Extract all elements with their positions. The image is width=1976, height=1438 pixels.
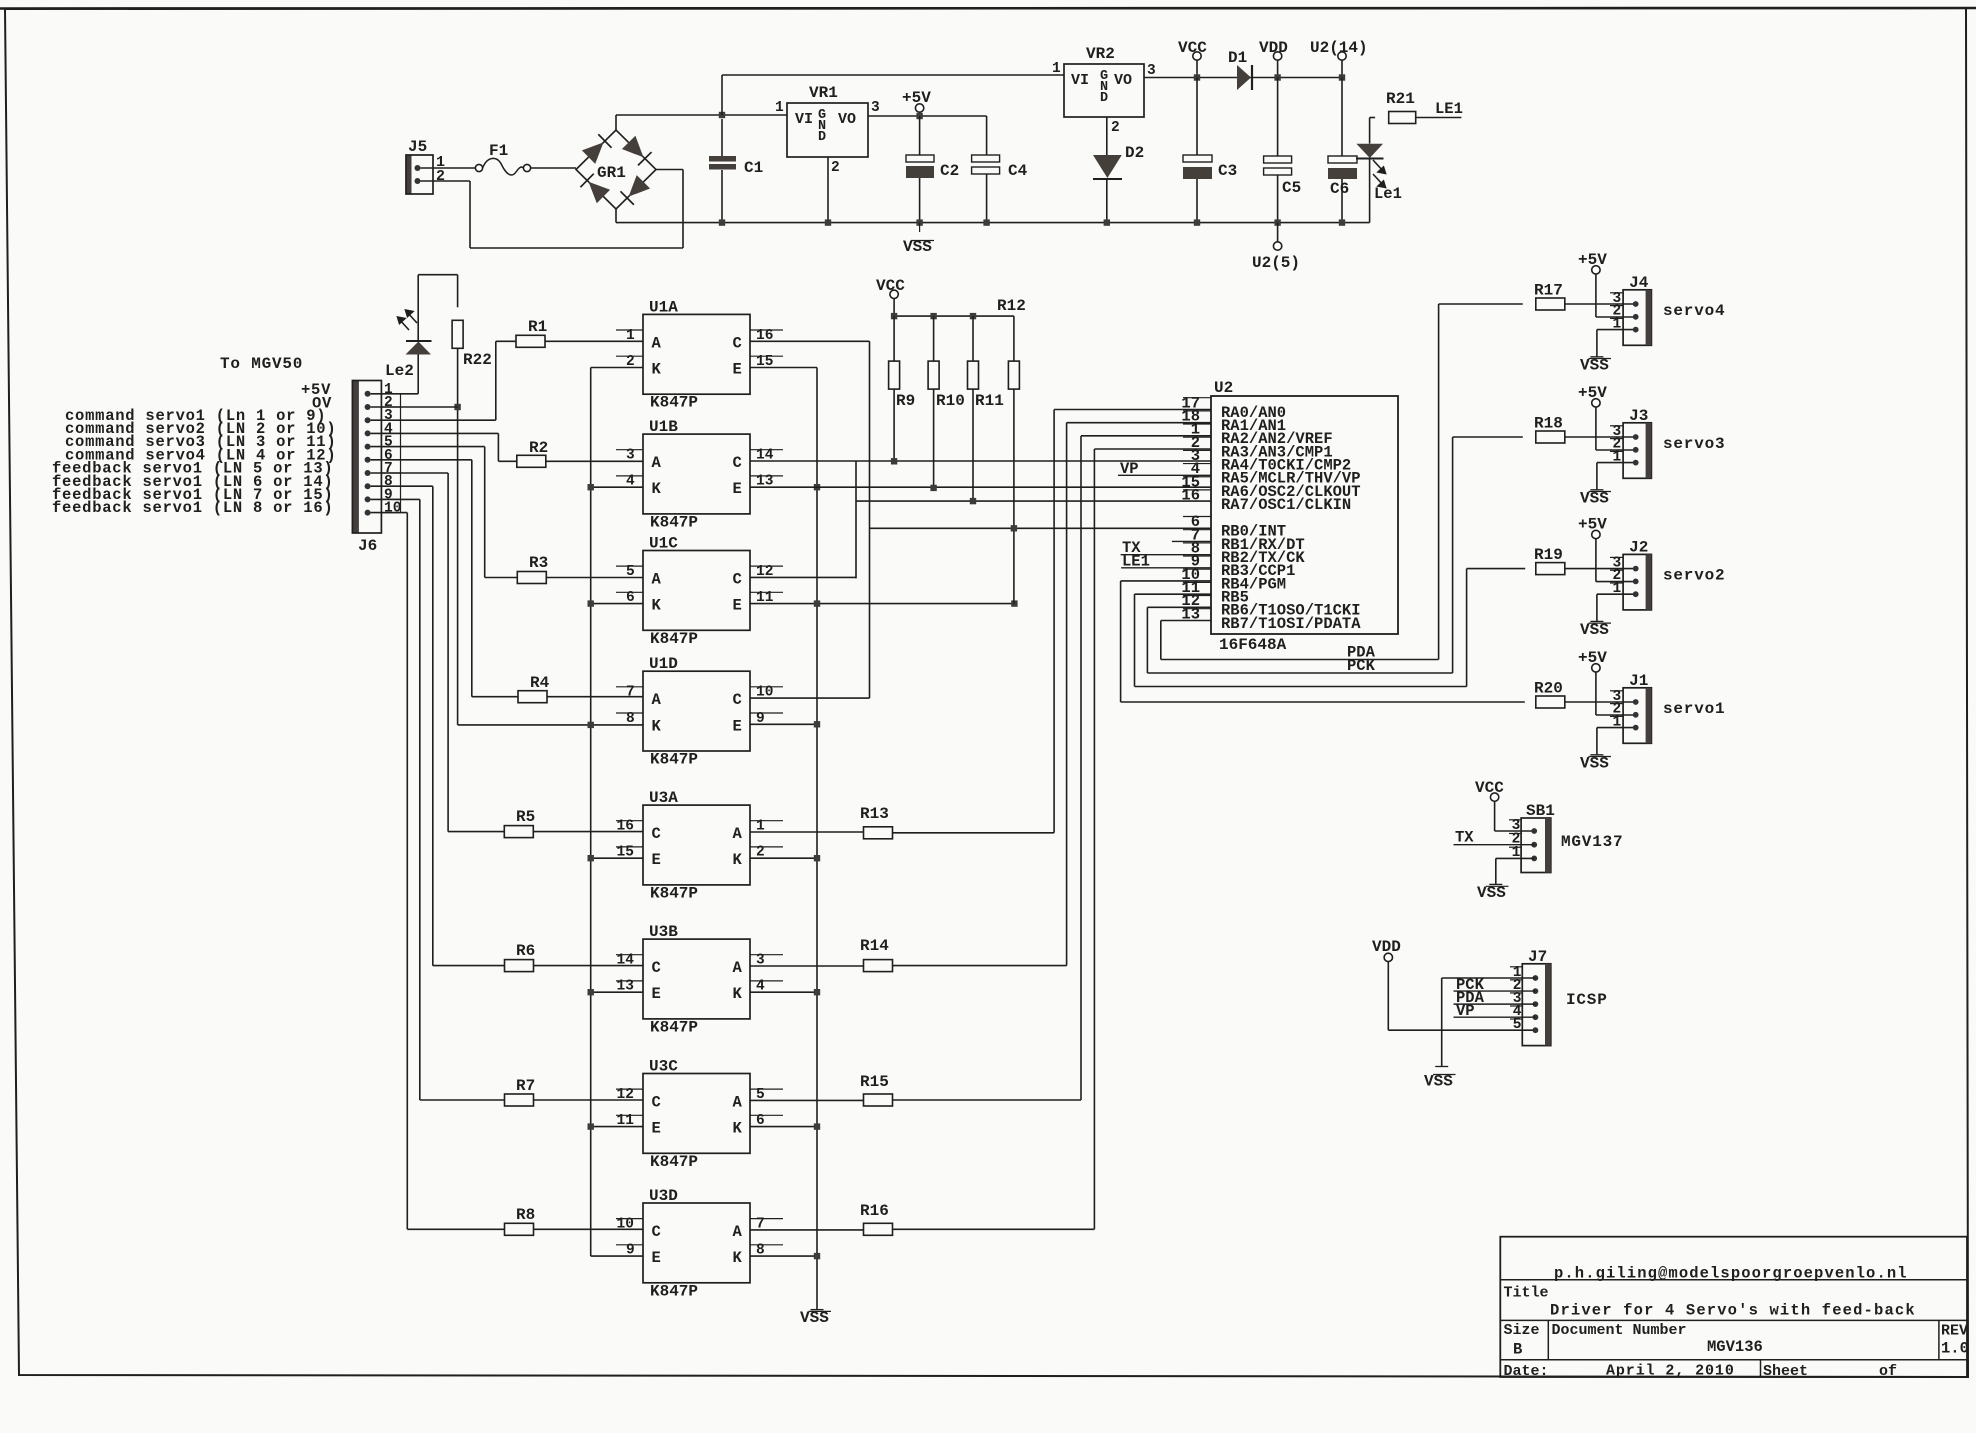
svg-text:3: 3 — [871, 100, 880, 116]
wire J6.2 0V — [371, 406, 458, 408]
junction R10 rail — [930, 313, 936, 319]
VSS symbol bottom — [811, 1309, 824, 1311]
svg-text:LE1: LE1 — [1122, 552, 1150, 570]
svg-text:A: A — [652, 454, 662, 472]
svg-text:U3C: U3C — [649, 1058, 678, 1076]
svg-text:C1: C1 — [744, 159, 763, 177]
svg-text:K: K — [733, 1120, 743, 1138]
svg-text:E: E — [652, 851, 661, 869]
U3A.K junction — [750, 857, 817, 859]
resistor R2 — [517, 455, 546, 467]
junction U1C.K — [591, 603, 643, 605]
svg-text:U3B: U3B — [649, 923, 678, 941]
svg-text:J5: J5 — [408, 138, 427, 156]
svg-text:D2: D2 — [1125, 144, 1144, 162]
junction R11 rail — [970, 313, 976, 319]
resistor R11 — [972, 316, 974, 361]
wire R20 to pin3 — [1565, 701, 1636, 703]
resistor R7 — [505, 1094, 534, 1106]
resistor R14 — [864, 960, 893, 972]
wire R18 to pin3 — [1565, 436, 1636, 438]
svg-text:VP: VP — [1120, 460, 1139, 478]
wire J5.1 to F1 — [421, 167, 476, 169]
VSS bus right — [816, 368, 818, 1310]
U3D.K junction — [750, 1255, 817, 1257]
pin1 wire to VSS J2 — [1597, 593, 1636, 595]
junction U1D.K 0V — [458, 724, 643, 726]
svg-text:R8: R8 — [516, 1206, 535, 1224]
svg-text:R19: R19 — [1534, 546, 1563, 564]
svg-text:A: A — [652, 570, 662, 588]
svg-text:K847P: K847P — [650, 394, 698, 412]
junction C1 bottom — [719, 219, 725, 225]
wire J6.9 to R7 — [371, 498, 420, 500]
svg-text:U2(5): U2(5) — [1252, 254, 1300, 272]
svg-text:Sheet: Sheet — [1763, 1363, 1808, 1380]
LED Le1 — [1369, 118, 1371, 144]
svg-text:feedback servo1 (LN 8 or 16): feedback servo1 (LN 8 or 16) — [52, 499, 333, 517]
VR2 pin2 wire to D2 — [1106, 117, 1108, 155]
resistor R9 — [893, 316, 895, 361]
svg-text:E: E — [652, 1120, 661, 1138]
svg-text:VR2: VR2 — [1086, 45, 1115, 63]
resistor R19 — [1536, 563, 1565, 575]
svg-text:VSS: VSS — [1424, 1073, 1453, 1091]
wire VR2.3 output rail — [1144, 77, 1342, 79]
svg-text:R1: R1 — [528, 318, 547, 336]
svg-text:K: K — [733, 985, 743, 1003]
svg-text:C5: C5 — [1282, 179, 1301, 197]
diode D1 — [1237, 65, 1251, 90]
svg-text:K: K — [733, 1249, 743, 1267]
fuse F1 — [475, 164, 482, 171]
svg-text:RB7/T1OSI/PDATA: RB7/T1OSI/PDATA — [1221, 615, 1361, 633]
net label PDA J7 pin3 — [1454, 1003, 1536, 1005]
svg-text:R6: R6 — [516, 942, 535, 960]
svg-text:MGV137: MGV137 — [1561, 833, 1623, 851]
wire R22 to 0V junction — [457, 348, 459, 725]
svg-text:10: 10 — [384, 501, 401, 517]
resistor R22 — [452, 320, 463, 348]
wire up to VR2 rail — [721, 75, 723, 115]
svg-text:RA7/OSC1/CLKIN: RA7/OSC1/CLKIN — [1221, 496, 1351, 514]
svg-text:1: 1 — [1052, 61, 1061, 77]
+5V wire to pin2 J1 — [1595, 672, 1597, 715]
optocoupler U3D — [643, 1203, 750, 1283]
svg-text:p.h.giling@modelspoorgroepvenl: p.h.giling@modelspoorgroepvenlo.nl — [1554, 1265, 1908, 1283]
wire J6.3 to R1 — [371, 419, 496, 421]
svg-text:+5V: +5V — [1578, 251, 1607, 269]
wire VDD to J7 pin5 — [1387, 962, 1389, 1031]
+5V symbol J4 — [1592, 266, 1600, 274]
svg-text:C3: C3 — [1218, 162, 1237, 180]
svg-text:Date:: Date: — [1504, 1363, 1549, 1380]
resistor R3 — [517, 572, 546, 584]
wire to U2(5) symbol — [1277, 223, 1279, 242]
wire U2 pin10 to R20 servo1 — [1121, 580, 1211, 582]
voltage regulator VR2 — [1064, 64, 1144, 117]
RA7 net line from branch to U2 pin16 — [856, 500, 1211, 502]
svg-text:VDD: VDD — [1259, 39, 1288, 57]
junction VCC rail — [1194, 74, 1200, 80]
+5V wire to pin2 J4 — [1595, 274, 1597, 317]
svg-text:R17: R17 — [1534, 282, 1563, 300]
+5V symbol J1 — [1592, 664, 1600, 672]
svg-text:K847P: K847P — [650, 513, 698, 531]
svg-text:REV: REV — [1941, 1323, 1968, 1340]
RB0 net line to U2 pin6 — [870, 527, 1212, 529]
svg-text:1.0: 1.0 — [1941, 1340, 1969, 1358]
J7 pin1 wire to VSS — [1442, 977, 1536, 979]
svg-text:D: D — [818, 130, 826, 145]
+5V symbol J3 — [1592, 399, 1600, 407]
svg-text:K: K — [652, 361, 662, 379]
bridge rectifier GR1 — [576, 130, 656, 209]
wire VR1.3 to +5V and C2 C4 — [868, 115, 987, 117]
svg-text:C: C — [652, 1093, 661, 1111]
U1D.E wire and junction — [750, 723, 817, 725]
svg-text:C: C — [733, 454, 742, 472]
svg-text:J3: J3 — [1629, 407, 1648, 425]
wire J6.1 to Le2 — [371, 393, 419, 395]
svg-text:C6: C6 — [1330, 180, 1349, 198]
svg-text:B: B — [1513, 1341, 1522, 1359]
wire F1 to GR1 — [531, 167, 576, 169]
U2 pin7 stub — [1172, 540, 1211, 542]
svg-text:E: E — [652, 1249, 661, 1267]
resistor R20 — [1536, 696, 1565, 708]
VDD symbol power — [1273, 52, 1281, 60]
svg-text:C2: C2 — [940, 162, 959, 180]
wire U2 pin11 to R19 feed — [1135, 593, 1212, 595]
resistor R1 — [516, 335, 545, 347]
svg-text:servo1: servo1 — [1663, 700, 1725, 718]
voltage regulator VR1 — [787, 103, 868, 157]
resistor R12 — [1013, 316, 1015, 361]
VCC symbol pullups — [890, 290, 898, 298]
connector J3 — [1623, 423, 1651, 479]
svg-text:servo2: servo2 — [1663, 567, 1725, 585]
LED Le2 — [406, 342, 432, 355]
U3C.K junction — [750, 1126, 817, 1128]
resistor R4 — [518, 691, 547, 703]
svg-text:VI: VI — [795, 111, 813, 128]
svg-text:D1: D1 — [1228, 49, 1247, 67]
svg-text:U3D: U3D — [649, 1187, 678, 1205]
resistor R17 — [1536, 298, 1565, 310]
optocoupler U1D — [643, 671, 750, 751]
svg-text:K847P: K847P — [650, 884, 698, 902]
svg-text:K847P: K847P — [650, 1153, 698, 1171]
capacitor C5 — [1277, 78, 1279, 157]
svg-text:R2: R2 — [529, 439, 548, 457]
svg-text:U3A: U3A — [649, 789, 678, 807]
svg-text:E: E — [652, 985, 661, 1003]
svg-text:+5V: +5V — [902, 89, 931, 107]
connector J5 — [406, 155, 412, 194]
junction C4 bottom — [983, 219, 989, 225]
VCC rail pullups — [894, 315, 1014, 317]
VCC symbol SB1 — [1490, 793, 1498, 801]
resistor R18 — [1536, 431, 1565, 443]
svg-text:A: A — [733, 959, 743, 977]
wire R17 to pin3 — [1565, 303, 1636, 305]
net label LE1 on U2 pin9 — [1121, 567, 1211, 569]
svg-text:R10: R10 — [936, 392, 965, 410]
svg-text:E: E — [733, 717, 742, 735]
svg-text:C: C — [733, 570, 742, 588]
wire riser R14 to U2 pin18 — [1067, 422, 1211, 424]
junction VDD rail — [1274, 74, 1280, 80]
capacitor C1 — [721, 119, 723, 156]
svg-text:R15: R15 — [860, 1073, 889, 1091]
svg-text:A: A — [652, 334, 662, 352]
connector J2 — [1623, 554, 1651, 610]
capacitor C6 — [1341, 78, 1343, 157]
SB1 pin1 to VSS — [1496, 857, 1534, 859]
svg-text:R21: R21 — [1386, 90, 1415, 108]
svg-text:E: E — [733, 480, 742, 498]
svg-text:U2(14): U2(14) — [1310, 39, 1368, 57]
U1C.E wire and junction — [750, 603, 1014, 605]
wire U1D.C from bus — [750, 697, 870, 699]
svg-text:U1D: U1D — [649, 655, 678, 673]
wire J6.7 to R5 — [371, 472, 449, 474]
svg-text:VDD: VDD — [1372, 938, 1401, 956]
svg-text:D: D — [1100, 91, 1108, 106]
svg-text:R11: R11 — [975, 392, 1004, 410]
wire LED branch to R21 — [1370, 117, 1376, 119]
svg-text:Le1: Le1 — [1374, 185, 1402, 203]
junction U1B.K — [591, 486, 643, 488]
svg-text:2: 2 — [831, 160, 840, 176]
resistor R8 — [505, 1223, 534, 1235]
svg-text:K847P: K847P — [650, 751, 698, 769]
resistor R13 — [864, 827, 893, 839]
junction C3 bottom — [1194, 219, 1200, 225]
svg-text:K: K — [652, 597, 662, 615]
svg-text:servo3: servo3 — [1663, 435, 1725, 453]
svg-text:R4: R4 — [530, 674, 550, 692]
net label PCK J7 pin2 — [1454, 990, 1536, 992]
wire U1A.C to RA4 line — [750, 340, 870, 342]
svg-text:2: 2 — [436, 168, 445, 185]
bottom VSS rail of power section — [616, 222, 1370, 224]
svg-text:April 2, 2010: April 2, 2010 — [1606, 1363, 1735, 1380]
svg-text:K847P: K847P — [650, 1018, 698, 1036]
svg-text:K: K — [652, 480, 662, 498]
+5V symbol J2 — [1592, 530, 1600, 538]
svg-text:Size: Size — [1504, 1322, 1540, 1339]
junction U3C.E — [591, 1126, 643, 1128]
svg-text:3: 3 — [1147, 63, 1156, 79]
J6 pin number column border — [400, 394, 402, 513]
svg-text:Title: Title — [1504, 1285, 1549, 1302]
svg-text:A: A — [733, 1223, 743, 1241]
svg-text:2: 2 — [1111, 120, 1120, 136]
svg-text:PDA: PDA — [1347, 644, 1376, 662]
svg-text:VCC: VCC — [1178, 39, 1207, 57]
svg-text:K: K — [652, 717, 662, 735]
wire riser R15 to U2 pin1 — [1081, 435, 1211, 437]
junction C6 bottom — [1339, 219, 1345, 225]
net label TX SB1 — [1454, 844, 1535, 846]
svg-text:R13: R13 — [860, 805, 889, 823]
svg-text:16F648A: 16F648A — [1219, 636, 1287, 654]
svg-text:+5V: +5V — [1578, 649, 1607, 667]
wire U1A.E to bus — [750, 367, 817, 369]
connector J6 — [352, 381, 359, 534]
svg-text:R18: R18 — [1534, 415, 1563, 433]
svg-text:K: K — [733, 851, 743, 869]
svg-text:R16: R16 — [860, 1202, 889, 1220]
svg-text:C: C — [733, 334, 742, 352]
svg-text:C: C — [652, 825, 661, 843]
K bus 0V left — [590, 368, 592, 1257]
junction U3A.E — [591, 857, 643, 859]
wire Le2 top loop to R22 — [417, 275, 419, 341]
svg-text:OV: OV — [312, 395, 332, 413]
optocoupler U3A — [643, 805, 750, 885]
wire U1A.K — [591, 367, 643, 369]
net label VP J7 pin4 — [1454, 1016, 1536, 1018]
microcontroller U2 16F648A — [1211, 396, 1398, 634]
svg-text:E: E — [733, 361, 742, 379]
svg-text:16: 16 — [1181, 486, 1200, 504]
wire R19 to pin3 — [1565, 568, 1636, 570]
net label VP on U2 pin4 — [1118, 474, 1211, 476]
svg-text:Document Number: Document Number — [1552, 1322, 1687, 1339]
junction R22 J6.2 — [454, 404, 460, 410]
svg-text:U2: U2 — [1214, 379, 1233, 397]
connector J4 — [1623, 290, 1651, 346]
junction D2 bottom — [1104, 219, 1110, 225]
svg-text:E: E — [733, 597, 742, 615]
svg-text:U1C: U1C — [649, 535, 678, 553]
resistor R16 — [864, 1223, 893, 1235]
svg-text:VO: VO — [1114, 72, 1132, 89]
resistor R5 — [504, 826, 533, 838]
svg-text:of: of — [1879, 1363, 1897, 1380]
svg-text:VR1: VR1 — [809, 84, 838, 102]
resistor R21 — [1389, 112, 1416, 124]
junction R10 RA6 — [930, 485, 936, 491]
wire J6.8 to R6 — [371, 485, 433, 487]
optocoupler U1C — [643, 551, 750, 631]
optocoupler U3C — [643, 1074, 750, 1154]
junction R9 RA4 — [891, 458, 897, 464]
svg-text:Driver for 4 Servo's with feed: Driver for 4 Servo's with feed-back — [1550, 1302, 1916, 1320]
svg-text:J4: J4 — [1629, 274, 1649, 292]
svg-text:A: A — [652, 691, 662, 709]
VDD symbol J7 — [1384, 953, 1392, 961]
svg-text:VP: VP — [1456, 1002, 1475, 1020]
U2(14) symbol — [1338, 52, 1346, 60]
resistor R15 — [864, 1094, 893, 1106]
wire U2 pin12 PCK to R18 feed — [1147, 606, 1211, 608]
svg-text:VI: VI — [1071, 72, 1089, 89]
junction U2(14) rail end — [1339, 74, 1345, 80]
wire U2 pin13 PDA to R17 feed — [1161, 619, 1211, 621]
title block — [1500, 1237, 1967, 1377]
svg-text:VCC: VCC — [1475, 779, 1504, 797]
svg-text:VO: VO — [838, 111, 856, 128]
wire R1 to U1A.A — [545, 340, 643, 342]
svg-text:A: A — [733, 1093, 743, 1111]
svg-text:A: A — [733, 825, 743, 843]
svg-text:1: 1 — [775, 100, 784, 116]
capacitor C3 — [1196, 78, 1198, 156]
svg-text:GR1: GR1 — [597, 164, 626, 182]
svg-text:servo4: servo4 — [1663, 302, 1725, 320]
connector J1 — [1623, 688, 1651, 744]
svg-text:U1B: U1B — [649, 418, 678, 436]
svg-text:R7: R7 — [516, 1077, 535, 1095]
svg-text:R3: R3 — [529, 554, 548, 572]
branch vertical to U1C.C — [855, 461, 857, 578]
svg-text:C4: C4 — [1008, 162, 1028, 180]
svg-text:K847P: K847P — [650, 630, 698, 648]
wire J6.10 to R8 — [371, 512, 408, 514]
junction C2 bottom — [916, 219, 922, 225]
svg-text:C: C — [652, 1223, 661, 1241]
connector SB1 — [1521, 818, 1551, 873]
net label LE1 power — [1416, 117, 1462, 119]
capacitor C4 — [986, 116, 988, 155]
wire VCC to SB1 pin3 — [1494, 801, 1496, 831]
junction R12 RB0 — [1011, 525, 1017, 531]
junction C1 top — [719, 112, 725, 118]
optocoupler U1A — [643, 314, 750, 394]
wire J6.5 to R3 — [371, 446, 485, 448]
RA4 net line U1B.C to U2 pin3 — [750, 460, 1211, 462]
resistor R6 — [505, 960, 534, 972]
svg-text:J1: J1 — [1629, 672, 1648, 690]
junction C5 bottom — [1274, 219, 1280, 225]
svg-text:J7: J7 — [1528, 948, 1547, 966]
svg-text:J2: J2 — [1629, 538, 1648, 556]
svg-text:VCC: VCC — [876, 277, 905, 295]
pin1 wire to VSS J4 — [1597, 329, 1636, 331]
junction R9 rail — [891, 313, 897, 319]
svg-text:SB1: SB1 — [1526, 802, 1555, 820]
+5V wire to pin2 J3 — [1595, 407, 1597, 450]
junction U3B.E — [591, 991, 643, 993]
junction R11 RA7 — [970, 498, 976, 504]
wire J5.2 loop to GR1 right corner — [421, 180, 471, 182]
wire riser R13 to U2 pin17 — [1054, 409, 1211, 411]
diode D2 — [1093, 155, 1122, 178]
net label TX on U2 pin8 — [1121, 554, 1211, 556]
capacitor C2 — [919, 116, 921, 155]
svg-text:TX: TX — [1455, 829, 1474, 847]
+5V wire to pin2 J2 — [1595, 539, 1597, 582]
svg-text:+5V: +5V — [1578, 516, 1607, 534]
svg-text:F1: F1 — [489, 142, 508, 160]
+5V symbol power — [915, 104, 923, 112]
VSS label power — [919, 223, 921, 232]
wire GR1 bottom to VSS rail — [615, 209, 617, 223]
wire J6.6 to R4 — [371, 459, 472, 461]
connector J7 — [1522, 964, 1551, 1046]
svg-text:R22: R22 — [463, 351, 492, 369]
pin1 wire to VSS J3 — [1597, 462, 1636, 464]
svg-text:+5V: +5V — [1578, 384, 1607, 402]
U3B.K junction — [750, 991, 817, 993]
svg-text:LE1: LE1 — [1435, 100, 1463, 118]
svg-text:J6: J6 — [358, 537, 377, 555]
svg-text:C: C — [652, 959, 661, 977]
